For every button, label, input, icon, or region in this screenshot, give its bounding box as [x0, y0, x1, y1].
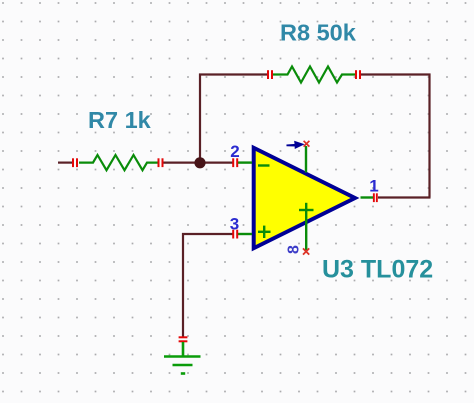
junction node A: [194, 157, 205, 168]
wire feedback top right of R8: [360, 73, 431, 75]
wire pin3 vertical to ground: [182, 233, 184, 337]
wire pin3 horizontal: [182, 233, 233, 235]
svg-text:3: 3: [230, 215, 239, 234]
svg-text:R7 1k: R7 1k: [88, 107, 152, 133]
power pin arrow top: [287, 142, 303, 148]
resistor R8 left pin ticks: [267, 70, 273, 79]
pin 1 stub: [361, 196, 374, 198]
wire junction to pin 2: [200, 162, 233, 164]
wire feedback top left of R8: [199, 73, 268, 75]
svg-text:1: 1: [369, 177, 378, 196]
op-amp U3 body: [254, 148, 355, 248]
resistor R7 left pin ticks: [72, 158, 78, 167]
no-connect x top: [304, 141, 310, 147]
resistor R7 right pin ticks: [158, 158, 164, 167]
resistor R7: [79, 155, 158, 170]
wire input segment left of R7: [58, 162, 73, 164]
no-connect x bottom: [303, 248, 309, 254]
svg-text:R8 50k: R8 50k: [280, 20, 357, 46]
op-amp V+ power pin stub top: [305, 146, 307, 173]
pin 2 stub: [238, 161, 252, 163]
ground: [164, 342, 201, 374]
svg-text:U3 TL072: U3 TL072: [322, 255, 433, 283]
svg-text:2: 2: [230, 142, 239, 161]
resistor R8 right pin ticks: [355, 70, 361, 79]
op-amp V- power pin plus and stub bottom: [299, 203, 314, 250]
pin 1 ticks: [373, 193, 378, 202]
op-amp inverting input minus: [258, 164, 270, 166]
pin 2 ticks: [232, 158, 238, 167]
wire R7 to junction node: [163, 162, 201, 164]
svg-text:8: 8: [285, 245, 302, 254]
resistor R8: [273, 67, 355, 83]
wire junction up to feedback: [199, 74, 201, 164]
wire feedback right vertical: [428, 74, 430, 198]
op-amp non-inverting input plus: [258, 226, 271, 238]
pin 3 ticks: [232, 230, 238, 239]
pin 3 stub: [238, 233, 252, 235]
ground pin ticks: [179, 336, 188, 342]
wire output to feedback corner: [378, 196, 431, 198]
